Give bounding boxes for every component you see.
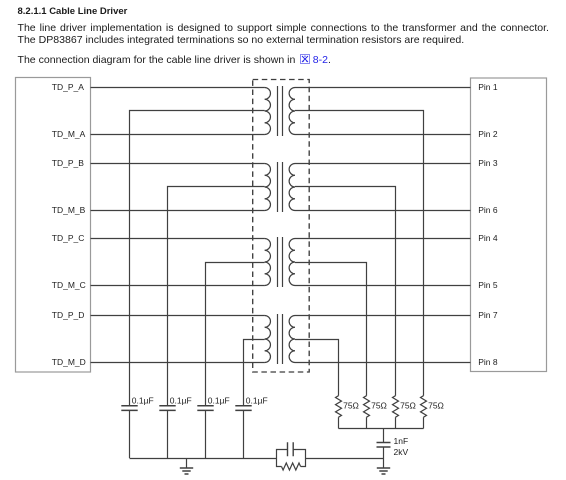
svg-text:75Ω: 75Ω <box>400 401 416 411</box>
wire TD_M_C to transformer T3 primary bottom <box>91 285 265 287</box>
svg-text:Pin 1: Pin 1 <box>478 82 498 92</box>
svg-text:0.1µF: 0.1µF <box>246 395 268 405</box>
capacitor in RC network <box>288 442 294 456</box>
resistor R1 75 ohm <box>336 396 342 418</box>
wire T1 primary center tap to capacitor C1 <box>130 111 265 406</box>
svg-text:TD_P_C: TD_P_C <box>52 233 85 243</box>
resistor R2 75 ohm <box>364 396 370 418</box>
wire T1 secondary bottom to Pin 2 <box>295 134 471 136</box>
wire C3 bottom lead to ground bus <box>205 410 207 458</box>
svg-text:Pin 8: Pin 8 <box>478 357 498 367</box>
wire T3 secondary top to Pin 4 <box>295 238 471 240</box>
svg-text:TD_M_C: TD_M_C <box>52 280 86 290</box>
wire T4 secondary top to Pin 7 <box>295 315 471 317</box>
capacitor C1 0.1uF <box>121 406 137 411</box>
transformer T2 secondary winding <box>289 164 295 211</box>
wire T4 primary center tap to capacitor C4 <box>244 340 265 406</box>
svg-text:0.1µF: 0.1µF <box>132 395 154 405</box>
wire TD_P_B to transformer T2 primary top <box>91 163 265 165</box>
svg-text:Pin 5: Pin 5 <box>478 280 498 290</box>
wire RC network to 1nF cap bottom node <box>306 458 384 460</box>
wire T4 secondary center tap to resistor R1 <box>295 340 339 396</box>
svg-text:Pin 7: Pin 7 <box>478 310 498 320</box>
wire R3 bottom lead <box>395 417 397 428</box>
transformer T1 core <box>278 86 283 136</box>
wire C1 bottom lead to ground bus <box>129 410 131 458</box>
capacitor C4 0.1uF <box>235 406 251 411</box>
resistor R3 75 ohm <box>393 396 399 418</box>
wire R4 bottom lead <box>423 417 425 428</box>
transformer T3 primary winding <box>265 239 271 286</box>
wire T3 secondary bottom to Pin 5 <box>295 285 471 287</box>
wire C4 bottom lead to ground bus <box>243 410 245 458</box>
svg-text:TD_M_A: TD_M_A <box>52 129 86 139</box>
transformer T4 core <box>278 314 283 364</box>
wire TD_P_C to transformer T3 primary top <box>91 238 265 240</box>
magnetics module dashed outline <box>253 80 310 373</box>
transformer T1 secondary winding <box>289 88 295 135</box>
svg-text:75Ω: 75Ω <box>371 401 387 411</box>
svg-text:TD_M_D: TD_M_D <box>52 357 86 367</box>
svg-text:TD_P_B: TD_P_B <box>52 158 84 168</box>
wire TD_M_B to transformer T2 primary bottom <box>91 210 265 212</box>
resistor in RC network <box>282 463 301 470</box>
wire TD_P_D to transformer T4 primary top <box>91 315 265 317</box>
connector box (RJ-45 pins) <box>471 78 547 372</box>
wire T3 primary center tap to capacitor C3 <box>206 263 265 406</box>
ground symbol (chassis side) <box>377 468 390 474</box>
ground symbol (PHY side) <box>186 459 188 469</box>
svg-text:75Ω: 75Ω <box>428 401 444 411</box>
wire T1 secondary top to Pin 1 <box>295 87 471 89</box>
wire T2 primary center tap to capacitor C2 <box>168 187 265 406</box>
wire C2 bottom lead to ground bus <box>167 410 169 458</box>
transformer T1 primary winding <box>265 88 271 135</box>
wire TD_P_A to transformer T1 primary top <box>91 87 265 89</box>
svg-text:1nF: 1nF <box>394 436 409 446</box>
svg-text:Pin 6: Pin 6 <box>478 205 498 215</box>
svg-text:Pin 4: Pin 4 <box>478 233 498 243</box>
svg-text:TD_M_B: TD_M_B <box>52 205 86 215</box>
RC network outline (parallel branch) <box>277 450 306 467</box>
wire T3 secondary center tap to resistor R2 <box>295 263 367 396</box>
resistor R4 75 ohm <box>421 396 427 418</box>
wire T2 secondary bottom to Pin 6 <box>295 210 471 212</box>
svg-text:0.1µF: 0.1µF <box>170 395 192 405</box>
wire T2 secondary top to Pin 3 <box>295 163 471 165</box>
wire R1 bottom lead <box>338 417 340 428</box>
wire TD_M_D to transformer T4 primary bottom <box>91 362 265 364</box>
svg-text:75Ω: 75Ω <box>343 401 359 411</box>
capacitor C3 0.1uF <box>197 406 213 411</box>
wire ground bus under capacitors <box>130 458 277 460</box>
transformer T2 primary winding <box>265 164 271 211</box>
capacitor C2 0.1uF <box>159 406 175 411</box>
transformer T3 secondary winding <box>289 239 295 286</box>
wire T4 secondary bottom to Pin 8 <box>295 362 471 364</box>
svg-text:0.1µF: 0.1µF <box>208 395 230 405</box>
wire R2 bottom lead <box>366 417 368 428</box>
transformer T4 secondary winding <box>289 316 295 363</box>
svg-text:Pin 2: Pin 2 <box>478 129 498 139</box>
svg-text:TD_P_D: TD_P_D <box>52 310 85 320</box>
wire C5 bottom lead to chassis ground <box>383 447 385 468</box>
PHY-side box (DP83867 MDI pins) <box>16 78 91 373</box>
svg-text:2kV: 2kV <box>394 447 409 457</box>
wire bus to capacitor C5 <box>383 429 385 443</box>
wire T2 secondary center tap to resistor R3 <box>295 187 396 396</box>
transformer T2 core <box>278 162 283 212</box>
transformer T4 primary winding <box>265 316 271 363</box>
svg-text:Pin 3: Pin 3 <box>478 158 498 168</box>
wire T1 secondary center tap to resistor R4 <box>295 111 424 396</box>
svg-text:TD_P_A: TD_P_A <box>52 82 84 92</box>
transformer T3 core <box>278 237 283 287</box>
wire TD_M_A to transformer T1 primary bottom <box>91 134 265 136</box>
capacitor C5 1nF 2kV <box>377 443 391 448</box>
wire resistor common bus <box>339 428 424 430</box>
